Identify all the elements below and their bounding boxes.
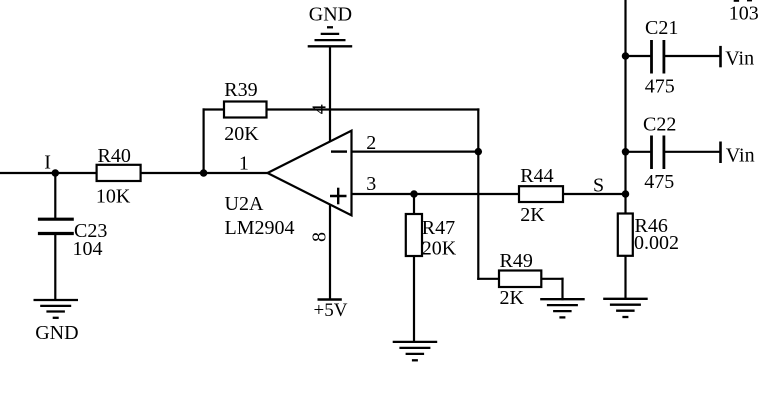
wire C21 right to Vin bbox=[665, 55, 721, 57]
wire pin3 net to S bbox=[352, 193, 626, 195]
capacitor C23 plates bbox=[38, 219, 74, 233]
wire feedback vertical drop bbox=[477, 108, 479, 280]
power +5V bar bbox=[318, 298, 342, 300]
wire C21 left bbox=[626, 55, 651, 57]
wire to R49 left bbox=[477, 278, 499, 280]
svg-text:R39: R39 bbox=[224, 79, 257, 101]
op-amp U2A minus input mark bbox=[331, 150, 347, 152]
svg-text:C22: C22 bbox=[643, 114, 676, 136]
svg-text:GND: GND bbox=[309, 3, 352, 25]
op-amp U2A triangle bbox=[268, 131, 352, 216]
wire feedback horizontal bbox=[203, 108, 480, 110]
svg-text:20K: 20K bbox=[224, 123, 259, 145]
svg-text:R47: R47 bbox=[422, 217, 455, 239]
junction node S / R46 bbox=[622, 190, 630, 198]
capacitor C22 plates bbox=[652, 136, 664, 170]
junction node C22 bbox=[622, 148, 630, 156]
ground below C23 bbox=[34, 300, 79, 318]
wire R46 bottom stem to ground bbox=[624, 256, 626, 299]
svg-text:475: 475 bbox=[645, 76, 675, 98]
ground below R47 bbox=[393, 342, 438, 360]
svg-text:20K: 20K bbox=[422, 238, 457, 260]
wire op-amp pin4 stem bbox=[329, 47, 331, 142]
svg-text:GND: GND bbox=[35, 322, 78, 344]
svg-text:+5V: +5V bbox=[314, 300, 348, 321]
svg-text:S: S bbox=[593, 174, 604, 196]
wire C23 bottom stem to ground bbox=[54, 235, 56, 301]
wire right vertical main bbox=[624, 0, 626, 214]
wire R39 left riser bbox=[203, 108, 205, 173]
junction node C21 bbox=[622, 52, 630, 60]
resistor R40 bbox=[97, 165, 141, 181]
wire R47 top stem bbox=[413, 194, 415, 214]
svg-text:Vin: Vin bbox=[725, 48, 754, 70]
svg-text:104: 104 bbox=[73, 238, 103, 260]
op-amp U2A plus input mark bbox=[330, 188, 347, 205]
wire op-amp pin8 stem bbox=[329, 205, 331, 299]
resistor R47 bbox=[406, 214, 422, 256]
wire input net I horizontal bbox=[0, 172, 268, 174]
wire R49 drop to ground bbox=[561, 278, 563, 301]
svg-text:2K: 2K bbox=[500, 287, 525, 309]
capacitor C21 plates bbox=[652, 40, 664, 74]
junction node I bbox=[52, 169, 60, 177]
wire pin2 to junction bbox=[352, 151, 479, 153]
svg-text:C21: C21 bbox=[645, 17, 678, 39]
junction node pin2 / feedback bbox=[475, 148, 483, 156]
resistor R39 bbox=[224, 102, 267, 118]
svg-text:3: 3 bbox=[366, 173, 376, 195]
svg-text:R49: R49 bbox=[500, 250, 533, 272]
svg-text:R44: R44 bbox=[520, 165, 553, 187]
resistor R46 bbox=[618, 214, 633, 256]
junction node output pin1 bbox=[200, 169, 208, 177]
svg-text:Vin: Vin bbox=[726, 145, 755, 167]
svg-text:103: 103 bbox=[729, 3, 759, 25]
terminal Vin top bar bbox=[719, 46, 722, 67]
wire R49 right bbox=[541, 278, 564, 280]
svg-text:1: 1 bbox=[239, 153, 249, 175]
svg-text:10K: 10K bbox=[96, 186, 131, 208]
svg-text:8: 8 bbox=[309, 232, 331, 242]
svg-text:4: 4 bbox=[309, 104, 331, 114]
wire C22 right to Vin bbox=[665, 151, 721, 153]
wire C22 left bbox=[626, 151, 651, 153]
junction node pin3 / R47 bbox=[410, 190, 418, 198]
svg-text:475: 475 bbox=[644, 171, 674, 193]
ground top GND (inverted) bbox=[308, 27, 353, 46]
svg-text:2K: 2K bbox=[520, 204, 545, 226]
edge clipped component stubs top right bbox=[736, 0, 749, 2]
ground below R49 bbox=[540, 299, 585, 317]
wire R47 bottom stem to ground bbox=[413, 256, 415, 341]
svg-text:LM2904: LM2904 bbox=[225, 217, 295, 239]
svg-text:2: 2 bbox=[366, 132, 376, 154]
resistor R44 bbox=[519, 186, 563, 202]
svg-text:0.002: 0.002 bbox=[634, 232, 679, 254]
resistor R49 bbox=[499, 271, 541, 288]
svg-text:U2A: U2A bbox=[225, 193, 264, 215]
ground below R46 bbox=[603, 299, 648, 317]
wire C23 top stem bbox=[54, 173, 56, 218]
svg-text:I: I bbox=[44, 152, 51, 174]
svg-text:R40: R40 bbox=[98, 145, 131, 167]
terminal Vin bottom bar bbox=[719, 142, 722, 164]
